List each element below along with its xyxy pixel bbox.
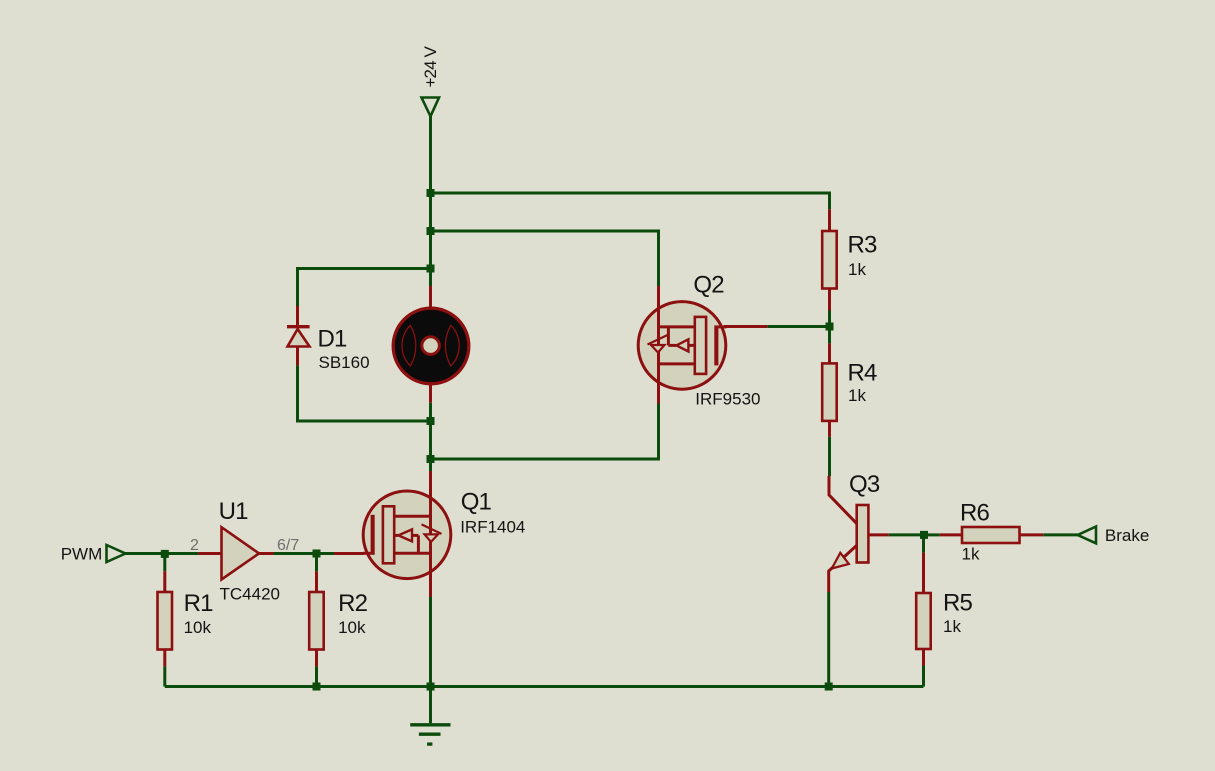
svg-text:R3: R3 xyxy=(848,232,878,259)
svg-text:10k: 10k xyxy=(184,618,212,637)
svg-text:1k: 1k xyxy=(848,260,866,279)
wire R1 top stub xyxy=(163,554,166,572)
svg-text:Brake: Brake xyxy=(1105,526,1149,545)
motor hub xyxy=(422,337,440,355)
pin motor top xyxy=(429,286,432,310)
junction ground symbol/rail xyxy=(427,683,435,691)
diode D1 xyxy=(287,326,370,373)
resistor R5 xyxy=(916,590,972,650)
wire lower loop to Q2 drain xyxy=(431,404,659,460)
pin Q3 emitter xyxy=(829,545,857,592)
pin R2 bottom xyxy=(315,650,318,667)
junction Q3 base/R5/R6 xyxy=(920,531,928,539)
wire Q1 source to ground rail xyxy=(429,597,432,687)
pin U1 input xyxy=(199,552,222,555)
wire motor bottom node xyxy=(429,403,432,471)
motor xyxy=(393,308,469,384)
wire R2 bottom stub xyxy=(315,666,318,686)
wire top rail right to R3 xyxy=(431,193,830,209)
op-amp buffer U1 xyxy=(190,498,299,604)
svg-text:U1: U1 xyxy=(219,498,249,525)
svg-text:1k: 1k xyxy=(943,617,961,636)
junction trunk/D1 cathode xyxy=(427,265,435,273)
resistor R3 xyxy=(822,231,877,289)
pin R3 top xyxy=(828,209,831,231)
pin motor bottom xyxy=(429,383,432,403)
svg-text:10k: 10k xyxy=(338,618,366,637)
motor right brush xyxy=(445,325,459,366)
pin Q3 base xyxy=(868,533,888,536)
wire R2 top stub xyxy=(315,554,318,572)
svg-text:R4: R4 xyxy=(848,360,878,387)
transistor Q2 IRF9530 xyxy=(638,272,760,409)
wire Q3 base to node xyxy=(889,533,924,536)
wire PWM input xyxy=(126,552,199,555)
pin R6 left xyxy=(940,533,962,536)
svg-text:1k: 1k xyxy=(848,386,866,405)
junction PWM/R1 xyxy=(161,550,169,558)
wire Q3 emitter to ground rail xyxy=(827,592,830,687)
pin Q3 collector xyxy=(829,476,857,524)
wire Q2 gate to R3/R4 node xyxy=(767,325,829,328)
resistor R2 xyxy=(309,590,367,650)
wire ground stem xyxy=(429,687,432,724)
wire node to R6 left xyxy=(924,533,940,536)
wire left to D1 cathode xyxy=(298,269,431,307)
wire U1 output to Q1 gate xyxy=(274,552,335,555)
power terminal +24V xyxy=(421,46,440,117)
svg-text:D1: D1 xyxy=(318,326,348,353)
svg-text:R2: R2 xyxy=(338,590,368,617)
svg-text:R6: R6 xyxy=(960,500,990,527)
wire R6 right to Brake terminal xyxy=(1043,533,1078,536)
wire ground rail xyxy=(165,685,924,688)
wire R5 bottom to ground rail xyxy=(922,666,925,687)
pin R1 top xyxy=(163,571,166,592)
transistor Q3 xyxy=(832,471,880,569)
output terminal Brake xyxy=(1078,526,1150,545)
pin Q2 drain xyxy=(657,382,660,404)
junction U1 out/R2 xyxy=(313,550,321,558)
resistor R4 xyxy=(822,360,877,421)
wire R4 bottom to Q3 collector xyxy=(828,437,831,476)
pin R5 bottom xyxy=(922,649,925,666)
svg-text:Q2: Q2 xyxy=(693,272,724,299)
pin D1 anode xyxy=(296,347,299,366)
svg-text:+24 V: +24 V xyxy=(421,46,440,88)
pin R4 top xyxy=(828,343,831,363)
svg-text:Q1: Q1 xyxy=(461,489,492,516)
wire trunk from +24V down to motor xyxy=(429,116,432,286)
resistor R1 xyxy=(158,590,214,650)
pin Q1 gate xyxy=(334,552,364,555)
pin R6 right xyxy=(1019,533,1043,536)
transistor Q1 IRF1404 xyxy=(363,489,526,579)
svg-text:6/7: 6/7 xyxy=(277,537,299,554)
svg-text:SB160: SB160 xyxy=(319,353,370,372)
junction motor bottom/D1 anode xyxy=(427,417,435,425)
resistor R6 xyxy=(960,500,1020,564)
wire R1 bottom stub xyxy=(163,666,166,686)
svg-text:2: 2 xyxy=(190,537,199,554)
pin Q1 source xyxy=(429,571,432,597)
junction R3/R4/Q2 gate xyxy=(826,323,834,331)
junction trunk/Q2 source loop xyxy=(427,227,435,235)
wire R3 bottom to node xyxy=(828,311,831,344)
motor left brush xyxy=(402,325,416,366)
junction motor bottom/Q2 drain loop xyxy=(427,455,435,463)
svg-text:TC4420: TC4420 xyxy=(220,585,280,604)
junction R2/ground rail xyxy=(313,683,321,691)
pin Q2 source xyxy=(657,286,660,309)
pin R3 bottom xyxy=(828,289,831,311)
pin Q1 drain xyxy=(429,471,432,498)
svg-text:1k: 1k xyxy=(962,545,980,564)
pin D1 cathode xyxy=(296,306,299,326)
svg-text:IRF1404: IRF1404 xyxy=(460,518,525,537)
pin R1 bottom xyxy=(163,650,166,667)
wire node to R5 top xyxy=(922,535,925,553)
pin R2 top xyxy=(315,571,318,592)
pin Q2 gate xyxy=(724,325,767,328)
svg-text:Q3: Q3 xyxy=(849,471,880,498)
pin R5 top xyxy=(922,553,925,593)
ground xyxy=(410,725,450,744)
junction +24V/R3 rail xyxy=(427,189,435,197)
svg-text:PWM: PWM xyxy=(61,545,103,564)
svg-text:R1: R1 xyxy=(184,590,214,617)
pin U1 output xyxy=(259,552,274,555)
svg-text:IRF9530: IRF9530 xyxy=(695,390,760,409)
wire left to D1 anode xyxy=(298,365,431,421)
wire upper loop to Q2 source xyxy=(431,231,659,286)
svg-text:R5: R5 xyxy=(943,590,973,617)
junction Q3 emitter/rail xyxy=(825,683,833,691)
input terminal PWM xyxy=(61,545,126,564)
pin R4 bottom xyxy=(828,421,831,437)
